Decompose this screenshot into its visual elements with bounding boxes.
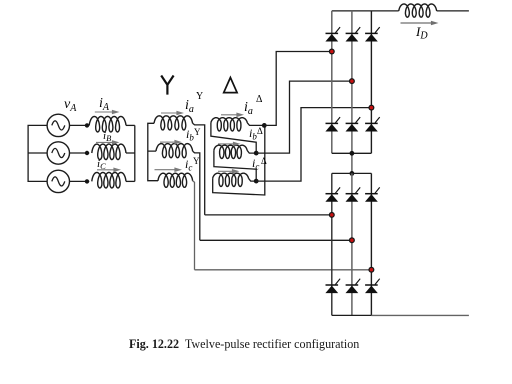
caption Fig. 12.22 [129, 337, 359, 352]
wire bottom bridge column 2 [351, 173, 353, 315]
wire Y phase c to bottom bridge [193, 181, 195, 270]
inductor primary winding i_B [92, 144, 126, 160]
wire delta coil2 output to node b [247, 150, 256, 153]
thyristor T8 bottom bridge upper row [346, 193, 359, 195]
svg-text:Y: Y [193, 156, 200, 166]
node top bridge phase a (red) [329, 49, 335, 55]
wire bottom bridge top bus [332, 172, 372, 174]
wire Y phase a to bottom bridge [193, 123, 205, 215]
thyristor T5 top bridge lower row [346, 122, 359, 124]
node delta c [254, 179, 259, 184]
inductor L_D smoothing choke [399, 4, 437, 17]
wire delta coil1 output to node a [247, 123, 264, 126]
wire delta coil2 left to coil3 right (slant) [214, 150, 256, 181]
node delta b [254, 151, 259, 156]
inductor primary winding i_C [92, 172, 126, 188]
wire coil to wye bus [126, 152, 135, 154]
wire delta coil3 output to node c [249, 178, 257, 181]
node bottom bridge phase b (red) [349, 237, 355, 243]
thyristor T3 top bridge upper row [365, 32, 378, 34]
wire bridge series link [351, 153, 353, 173]
thyristor T11 bottom bridge lower row [346, 284, 359, 286]
wire top bridge column 2 [351, 11, 353, 153]
ac source vs1 (v_A) [47, 114, 69, 136]
node bottom bridge phase a (red) [329, 212, 335, 218]
svg-text:Y: Y [194, 127, 201, 137]
wire source to primary coil [70, 124, 90, 126]
thyristor T10 bottom bridge lower row [326, 284, 339, 286]
inductor Y winding i_c^Y [158, 173, 193, 187]
wire DC negative bottom bus [332, 314, 372, 316]
wire top bridge column 1 [331, 11, 333, 153]
wire delta phase b to top bridge [256, 81, 352, 153]
wire DC positive terminal [437, 10, 469, 12]
inductor Delta winding i_b^Delta [214, 145, 247, 158]
wire delta phase a to top bridge [264, 52, 332, 126]
inductor Y winding i_a^Y [154, 116, 193, 130]
wire bottom bridge column 1 [331, 173, 333, 315]
thyristor T2 top bridge upper row [346, 32, 359, 34]
node top bridge phase c (red) [368, 105, 374, 111]
label Delta (delta winding group) [224, 78, 237, 93]
svg-text:Δ: Δ [256, 94, 263, 105]
svg-text:Y: Y [196, 91, 203, 102]
label I_D and arrow [401, 22, 433, 24]
node delta a [262, 123, 267, 128]
thyristor T7 bottom bridge upper row [326, 193, 339, 195]
thyristor T12 bottom bridge lower row [365, 284, 378, 286]
node link upper [350, 151, 355, 156]
thyristor T1 top bridge upper row [326, 32, 339, 34]
wire bottom bridge column 3 [370, 173, 372, 315]
svg-text:Δ: Δ [257, 126, 263, 136]
wire Y phase b to bottom bridge [193, 151, 200, 240]
thyristor T4 top bridge lower row [326, 122, 339, 124]
wire top bridge bottom bus [332, 152, 372, 154]
wire delta coil1 left to coil2 right (slant) [211, 123, 256, 153]
wire top bridge column 3 [370, 11, 372, 153]
inductor Delta winding i_a^Delta [211, 118, 247, 131]
inductor primary winding i_A [89, 116, 126, 132]
wire coil to wye bus [126, 180, 135, 182]
thyristor T9 bottom bridge upper row [365, 193, 378, 195]
wire source to primary coil [70, 180, 90, 182]
svg-text:Δ: Δ [261, 156, 267, 166]
ac source vs2 (v_B) [47, 142, 69, 164]
node primary wye point bus [134, 125, 136, 181]
node link lower [350, 171, 355, 176]
ac source vs3 (v_C) [47, 170, 69, 192]
wire source to primary coil [70, 152, 90, 154]
node top bridge phase b (red) [349, 78, 355, 84]
node bottom bridge phase c (red) [368, 267, 374, 273]
inductor Y winding i_b^Y [156, 144, 193, 158]
node Y wye point bus [148, 123, 158, 180]
node N source neutral bus [28, 125, 47, 181]
wire DC positive top bus [332, 10, 399, 12]
wire delta coil3 left to coil1 right (bottom + right edge) [213, 125, 265, 195]
wire delta phase c to top bridge [256, 108, 371, 182]
inductor Delta winding i_c^Delta [213, 173, 249, 186]
thyristor T6 top bridge lower row [365, 122, 378, 124]
label Y (wye winding group) [161, 76, 173, 95]
wire coil to wye bus [126, 124, 135, 126]
